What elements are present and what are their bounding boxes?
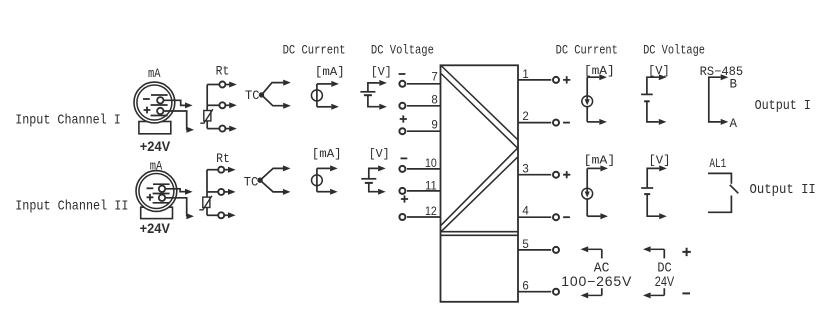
terminal 11 xyxy=(399,188,405,194)
svg-text:[mA]: [mA] xyxy=(312,147,342,161)
RTD element symbol (channel I) xyxy=(204,111,211,121)
Rt terminal dot 2 (channel I) xyxy=(219,102,225,108)
battery short plate (channel II input) xyxy=(365,182,373,184)
transmitter terminal dot lower (channel I) xyxy=(157,108,163,114)
svg-text:+24V: +24V xyxy=(140,139,171,155)
DC supply bracket upper arm xyxy=(651,248,665,250)
DC supply bracket upper stem xyxy=(663,249,665,258)
svg-text:24V: 24V xyxy=(655,273,675,289)
svg-text:A: A xyxy=(730,117,738,131)
svg-text:DC Current: DC Current xyxy=(556,44,618,58)
relay contact lower wire (AL1) xyxy=(708,196,731,213)
terminal 9 xyxy=(399,128,405,134)
svg-text:7: 7 xyxy=(431,72,437,84)
wire transmitter upper lead (channel I) xyxy=(164,100,186,105)
wire block to terminal 2 xyxy=(518,122,551,124)
TC junction dot (channel II) xyxy=(258,178,262,182)
wire transmitter lower lead (channel I) xyxy=(164,111,187,130)
battery short plate (output II) xyxy=(644,193,650,195)
svg-text:5: 5 xyxy=(522,239,528,251)
transmitter base box (channel I) xyxy=(139,122,171,134)
RTD element symbol (channel II) xyxy=(203,197,210,207)
svg-text:Output II: Output II xyxy=(750,183,816,198)
Rt stub wire 1 (channel I) xyxy=(207,84,219,86)
Rt arrow lead xyxy=(224,191,229,193)
current-source stem (channel I input) xyxy=(316,84,318,107)
svg-text:10: 10 xyxy=(425,158,437,170)
TC junction dot (channel I) xyxy=(259,93,263,97)
svg-text:DC Current: DC Current xyxy=(283,44,346,58)
isolation barrier diagonal (upper pair, line 2) xyxy=(441,74,518,149)
current-source lower arm (channel I input) xyxy=(317,106,331,108)
Rt arrow lead xyxy=(224,169,229,171)
terminal 3 xyxy=(553,172,559,178)
transmitter top bar (channel II) xyxy=(153,183,170,185)
current-output stem (output I) xyxy=(586,77,588,122)
svg-text:[mA]: [mA] xyxy=(584,154,616,168)
svg-text:[mA]: [mA] xyxy=(315,65,345,79)
Rt common wire (channel I) xyxy=(206,85,208,129)
battery long plate (output I) xyxy=(641,93,653,95)
terminal 12 xyxy=(399,214,405,220)
terminal 4 xyxy=(553,214,559,220)
relay contact blade (AL1) xyxy=(730,185,739,194)
voltage-source upper wire (channel II input) xyxy=(369,168,378,178)
transmitter terminal dot upper (channel II) xyxy=(159,186,165,192)
Rt terminal dot 3 (channel I) xyxy=(219,126,225,132)
svg-text:9: 9 xyxy=(431,120,437,132)
svg-text:Rt: Rt xyxy=(216,151,230,166)
wire transmitter lower lead (channel II) xyxy=(165,198,187,216)
wire terminal 7 to block xyxy=(407,83,441,85)
Rt arrow lead xyxy=(225,128,230,130)
terminal 2 xyxy=(553,120,559,126)
AC supply bracket upper arm xyxy=(588,248,602,250)
transmitter terminal dot lower (channel II) xyxy=(159,195,165,201)
terminal 8 xyxy=(399,103,405,109)
RTD strike-through (channel II) xyxy=(199,196,212,210)
svg-text:AL1: AL1 xyxy=(709,156,726,171)
wire terminal 9 to block xyxy=(407,130,441,132)
wire block to terminal 4 xyxy=(518,216,551,218)
Rt stub wire 2 (channel II) xyxy=(207,191,219,193)
polarity + above terminal 12 xyxy=(401,195,408,202)
isolator block body xyxy=(441,65,519,301)
terminal 7 xyxy=(399,81,405,87)
Rt stub wire 2 (channel I) xyxy=(207,104,219,106)
battery long plate (channel II input) xyxy=(361,178,376,180)
Rt arrow lead xyxy=(225,104,230,106)
isolation barrier diagonal (lower pair, line 1) xyxy=(441,148,518,225)
voltage-source lower wire (channel II input) xyxy=(369,183,378,192)
transmitter terminal dot upper (channel I) xyxy=(157,97,163,103)
wire block to terminal 1 xyxy=(518,79,551,81)
Rt stub wire 1 (channel II) xyxy=(207,169,219,171)
svg-text:B: B xyxy=(730,78,738,92)
AC supply bracket upper stem xyxy=(601,249,603,258)
svg-text:[V]: [V] xyxy=(648,154,670,168)
terminal 6 xyxy=(553,289,559,295)
current-source inner arrow line (output II) xyxy=(586,189,588,195)
transmitter bottom bar (channel I) xyxy=(151,115,168,117)
svg-text:[V]: [V] xyxy=(369,147,390,161)
Rt arrow lead xyxy=(225,84,230,86)
wire terminal 10 to block xyxy=(407,168,441,170)
transmitter bottom bar (channel II) xyxy=(153,202,170,204)
svg-text:DC Voltage: DC Voltage xyxy=(643,44,705,58)
polarity - at terminal 2 xyxy=(563,122,570,124)
svg-text:6: 6 xyxy=(522,281,528,293)
Rt stub wire 3 (channel II) xyxy=(207,214,219,216)
transmitter inner circle (channel I) xyxy=(137,85,172,120)
relay contact upper wire (AL1) xyxy=(708,173,731,183)
svg-text:[V]: [V] xyxy=(371,65,392,79)
transmitter inner circle (channel II) xyxy=(139,174,174,209)
svg-text:TC: TC xyxy=(245,88,260,103)
current-source circle (output I) xyxy=(582,96,593,107)
power-section divider line 1 xyxy=(441,231,518,233)
current-source upper arm (channel I input) xyxy=(317,83,331,85)
current-output lower arm (output II) xyxy=(587,215,600,217)
Rt terminal dot 1 (channel I) xyxy=(219,82,225,88)
Rt arrow lead xyxy=(224,214,229,216)
voltage-output lower wire (output I) xyxy=(647,101,659,122)
polarity + at terminal 1 xyxy=(563,76,570,83)
voltage-source upper wire (channel I input) xyxy=(368,83,379,92)
wire terminal 11 to block xyxy=(407,190,441,192)
transmitter middle bar (channel I) xyxy=(151,104,168,106)
TC upper branch wire (channel II) xyxy=(260,168,283,180)
current-source circle (output II) xyxy=(582,188,593,199)
svg-text:+24V: +24V xyxy=(140,221,171,237)
current-output stem (output II) xyxy=(586,168,588,216)
Rt terminal dot 2 (channel II) xyxy=(218,189,224,195)
isolation barrier diagonal (lower pair, line 2) xyxy=(441,157,518,232)
battery long plate (channel I input) xyxy=(360,91,375,93)
current-source circle (channel I input) xyxy=(311,90,322,101)
svg-text:11: 11 xyxy=(425,180,437,192)
TC lower branch wire (channel II) xyxy=(260,180,283,192)
svg-text:1: 1 xyxy=(522,69,528,81)
Rt terminal dot 1 (channel II) xyxy=(218,167,224,173)
voltage-output upper wire (output I) xyxy=(647,77,659,94)
svg-text:4: 4 xyxy=(522,206,529,218)
polarity - (DC supply) xyxy=(682,292,690,294)
battery long plate (output II) xyxy=(641,187,653,189)
transmitter - sign (channel I) xyxy=(143,98,150,100)
Rt terminal dot 3 (channel II) xyxy=(218,212,224,218)
current-source upper arm (channel II input) xyxy=(317,167,330,169)
TC lower branch wire (channel I) xyxy=(262,95,284,106)
terminal 1 xyxy=(553,77,559,83)
voltage-output lower wire (output II) xyxy=(647,194,659,216)
svg-text:2: 2 xyxy=(522,111,528,123)
AC supply bracket lower stem xyxy=(601,288,603,295)
svg-text:8: 8 xyxy=(431,94,437,106)
transmitter outer circle (channel I) xyxy=(134,82,175,123)
wire terminal 12 to block xyxy=(407,216,441,218)
svg-text:Input Channel I: Input Channel I xyxy=(15,113,121,129)
polarity - above terminal 10 xyxy=(401,157,408,159)
voltage-source lower wire (channel I input) xyxy=(368,95,379,107)
Rt common wire (channel II) xyxy=(206,170,208,216)
svg-text:Rt: Rt xyxy=(216,64,230,79)
wire block to terminal 5 xyxy=(518,249,551,251)
RS-485 bracket wire xyxy=(709,77,721,122)
polarity - above terminal 7 xyxy=(399,73,406,75)
svg-text:100−265V: 100−265V xyxy=(561,273,632,289)
polarity + (DC supply) xyxy=(682,248,690,256)
svg-text:12: 12 xyxy=(425,206,437,218)
transmitter middle bar (channel II) xyxy=(153,193,170,195)
RTD strike-through (channel I) xyxy=(200,109,213,123)
Rt stub wire 3 (channel I) xyxy=(207,128,219,130)
svg-text:Output I: Output I xyxy=(755,99,811,114)
transmitter + sign (channel II) xyxy=(147,194,154,201)
terminal 10 xyxy=(399,166,405,172)
wire block to terminal 6 xyxy=(518,291,551,293)
current-output lower arm (output I) xyxy=(587,121,599,123)
battery short plate (output I) xyxy=(644,100,650,102)
svg-text:3: 3 xyxy=(522,163,528,175)
current-source inner arrow line (output I) xyxy=(586,97,588,103)
polarity + at terminal 3 xyxy=(563,171,570,178)
svg-text:Input Channel II: Input Channel II xyxy=(15,199,128,215)
svg-text:TC: TC xyxy=(244,175,259,190)
isolation barrier diagonal (upper pair, line 1) xyxy=(441,66,518,140)
power-section divider line 2 xyxy=(441,234,518,236)
transmitter - sign (channel II) xyxy=(147,187,154,189)
terminal 5 xyxy=(553,247,559,253)
TC upper branch wire (channel I) xyxy=(262,83,284,95)
DC supply bracket lower stem xyxy=(663,288,665,295)
transmitter + sign (channel I) xyxy=(144,107,151,114)
transmitter outer circle (channel II) xyxy=(136,171,177,212)
voltage-output upper wire (output II) xyxy=(647,168,659,188)
wire terminal 8 to block xyxy=(407,105,441,107)
wire block to terminal 3 xyxy=(518,174,551,176)
battery short plate (channel I input) xyxy=(364,94,372,96)
svg-text:DC Voltage: DC Voltage xyxy=(371,44,434,58)
current-output upper arm (output II) xyxy=(587,167,600,169)
AC supply bracket lower arm xyxy=(588,294,602,296)
current-source circle (channel II input) xyxy=(312,175,323,186)
current-output upper arm (output I) xyxy=(587,76,599,78)
DC supply bracket lower arm xyxy=(651,294,665,296)
wire transmitter upper lead (channel II) xyxy=(165,189,185,192)
polarity + above terminal 9 xyxy=(400,115,407,122)
svg-text:mA: mA xyxy=(148,67,161,81)
current-source lower arm (channel II input) xyxy=(317,191,330,193)
polarity - at terminal 4 xyxy=(563,216,570,218)
transmitter top bar (channel I) xyxy=(151,94,168,96)
transmitter base box (channel II) xyxy=(141,207,173,218)
current-source stem (channel II input) xyxy=(316,168,318,191)
